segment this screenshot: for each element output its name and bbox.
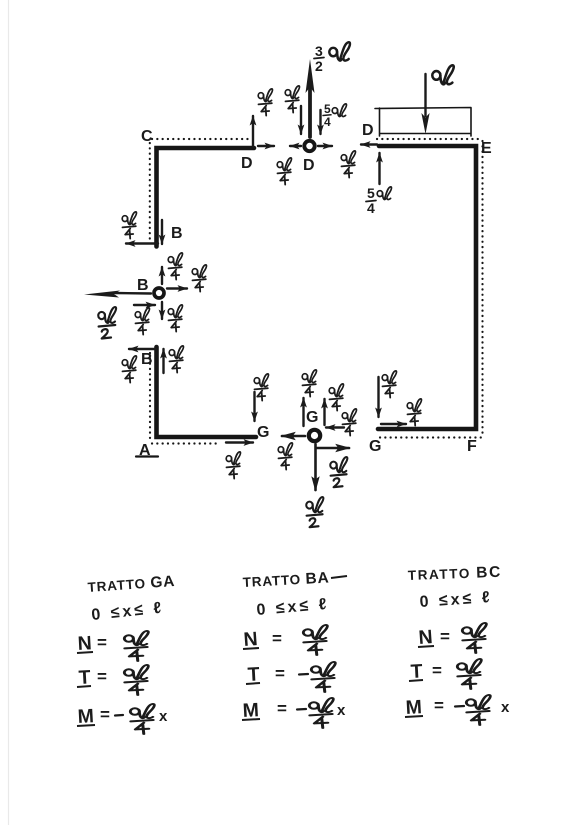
svg-text:=: = <box>440 627 450 646</box>
member C-D top-left beam with column C-B <box>157 148 255 247</box>
value ql at load <box>432 65 453 84</box>
value ql/4 up at hinge B <box>168 253 182 280</box>
support A hatch <box>136 455 158 457</box>
svg-text:2: 2 <box>315 58 323 74</box>
svg-text:=: = <box>434 696 444 715</box>
svg-text:x: x <box>337 702 346 719</box>
value ql/4 left at hinge G <box>278 443 292 470</box>
force arrow ql/4 up right of B end <box>162 349 164 373</box>
svg-text:TRATTO BC: TRATTO BC <box>408 564 503 584</box>
svg-text:3: 3 <box>315 43 323 59</box>
scan fold line <box>8 0 10 825</box>
wire dotted line along E-F column <box>481 141 483 436</box>
value ql/4 up-left at hinge G <box>302 370 316 397</box>
svg-text:=: = <box>275 664 285 683</box>
value ql/4 below A-G beam <box>226 452 240 479</box>
svg-text:=: = <box>97 667 107 686</box>
value ql/4 above D end of C-D beam <box>258 89 272 116</box>
force arrow ql/4 small right below hinge B <box>134 304 155 306</box>
value ql/4 right of hinge D <box>341 151 355 178</box>
equation M <box>405 695 510 725</box>
value ql/4 up at top of B-A column <box>169 346 183 373</box>
hinge G <box>309 430 320 441</box>
wire dotted line along D-E beam <box>377 138 480 140</box>
value ql/4 at G end of F-G beam <box>382 371 396 398</box>
svg-text:TRATTO BA: TRATTO BA <box>242 569 330 591</box>
hinge D <box>304 141 314 151</box>
svg-text:C: C <box>141 128 153 145</box>
equation T <box>77 665 148 695</box>
force arrow ql/4 down at G end of F-G beam <box>377 377 379 417</box>
distributed load box on D-E <box>375 108 471 137</box>
svg-text:x: x <box>501 699 510 716</box>
force arrow ql/4 right at G end of F-G beam <box>381 423 406 425</box>
svg-text:G: G <box>369 438 381 455</box>
force arrow B down at bottom of C-B column <box>161 220 163 244</box>
svg-text:D: D <box>362 122 374 139</box>
force arrow 5ql/4 up under D end of right beam <box>378 153 380 184</box>
svg-text:D: D <box>303 157 315 174</box>
force arrow ql/2 big right at hinge G <box>317 447 349 450</box>
value ql/2 left at hinge B <box>98 307 116 338</box>
svg-text:0 ≤x≤ ℓ: 0 ≤x≤ ℓ <box>91 599 165 624</box>
force arrow ql/4 big left at hinge G <box>282 435 305 438</box>
equation M <box>77 704 168 734</box>
svg-text:B: B <box>171 225 183 242</box>
svg-text:G: G <box>306 409 318 426</box>
svg-text:=: = <box>272 629 282 648</box>
value ql/4 at top of B-A column <box>122 356 136 383</box>
svg-text:4: 4 <box>367 200 375 216</box>
force arrow ql/4 up left at hinge G <box>302 398 304 426</box>
svg-text:4: 4 <box>324 115 331 129</box>
wire dotted line along A-G beam <box>152 442 216 444</box>
value ql/4 down at hinge B <box>168 305 182 332</box>
value 3/2 ql at big up arrow <box>314 42 350 74</box>
value ql/2 right at hinge G <box>330 457 347 487</box>
force arrow ql/4 right below A-G beam <box>226 441 253 443</box>
value ql/4 right at hinge B <box>192 265 206 292</box>
svg-text:0 ≤x≤ ℓ: 0 ≤x≤ ℓ <box>419 589 493 611</box>
value ql/4 up-right at hinge G <box>329 384 343 411</box>
value ql/4 small right at hinge B <box>135 308 149 335</box>
equation T <box>246 662 335 692</box>
equation M <box>242 698 346 728</box>
force arrow ql/4 down left of hinge D <box>300 106 302 134</box>
value ql/4 at bottom of C-B column <box>122 212 136 239</box>
force arrow 5/4ql down right of hinge D <box>319 110 321 134</box>
wire dotted line along F-G beam <box>380 436 481 438</box>
wire dotted line along C-B column <box>149 143 151 240</box>
force arrow right from hinge D toward right piece <box>318 145 332 147</box>
value 5ql/4 under right beam <box>366 185 391 216</box>
force arrow ql/2 big left at hinge B <box>84 291 151 298</box>
value ql/4 left-down arrow at hinge D <box>285 86 299 113</box>
svg-text:B: B <box>141 351 153 368</box>
force arrow ql/4 left into hinge G <box>326 426 344 428</box>
equation T <box>409 659 481 689</box>
force arrow ql/4 right at hinge B <box>167 287 187 289</box>
force arrow left from hinge D <box>290 145 301 147</box>
value ql/4 below arrows left of hinge D <box>277 158 291 185</box>
value ql/4 right arrow at F-G beam <box>407 399 421 426</box>
equation N <box>77 631 148 661</box>
force arrow ql/4 up right at hinge G <box>323 399 325 425</box>
force arrow ql/4 left at B end of B-A column <box>129 348 156 350</box>
svg-text:=: = <box>277 699 287 718</box>
force arrow ql/4 left at bottom of C-B column <box>126 242 158 244</box>
equation N <box>243 625 328 655</box>
force arrow 3/2ql big up at hinge D <box>306 59 315 137</box>
member B-A column with beam A-G <box>157 347 257 437</box>
svg-text:0 ≤x≤ ℓ: 0 ≤x≤ ℓ <box>256 596 330 619</box>
svg-text:F: F <box>467 438 477 455</box>
wire dotted line along C-D beam <box>152 138 250 140</box>
force arrow ql/4 up at D end of C-D beam <box>252 116 254 146</box>
svg-text:A: A <box>139 442 151 459</box>
svg-text:G: G <box>257 424 269 441</box>
hinge B <box>154 288 164 298</box>
value ql/4 right at hinge G <box>342 409 356 436</box>
svg-text:E: E <box>481 140 492 157</box>
column TRATTO BC <box>405 564 510 725</box>
title underline flourish <box>331 576 347 578</box>
value ql/2 below hinge G <box>306 497 323 527</box>
svg-text:=: = <box>432 661 442 680</box>
load resultant ql big down arrow <box>421 74 429 134</box>
force arrow ql/4 up at hinge B <box>161 267 163 284</box>
force arrow right toward hinge D <box>258 145 274 147</box>
svg-text:5: 5 <box>367 185 375 201</box>
column TRATTO BA <box>242 569 347 727</box>
svg-text:B: B <box>137 277 149 294</box>
column TRATTO GA <box>77 573 176 734</box>
member D-E beam, E-F column, F-G beam (right piece) <box>378 146 476 429</box>
svg-text:x: x <box>159 708 168 725</box>
force arrow ql/4 left at D end of right beam <box>361 143 377 145</box>
force arrow ql/2 down at hinge G <box>314 444 317 490</box>
force arrow ql/4 down at G end of A-G beam <box>253 392 255 421</box>
svg-text:D: D <box>241 155 253 172</box>
wire dotted line along B-A column <box>149 353 151 441</box>
svg-text:=: = <box>97 633 107 652</box>
equation N <box>418 623 487 653</box>
svg-text:=: = <box>100 705 110 724</box>
value ql/4 above G end of A-G beam <box>254 374 268 401</box>
value 5/4 ql right of hinge D <box>323 102 346 129</box>
svg-text:TRATTO GA: TRATTO GA <box>87 573 176 596</box>
svg-text:5: 5 <box>324 102 331 116</box>
force arrow ql/4 down at hinge B <box>161 302 163 319</box>
